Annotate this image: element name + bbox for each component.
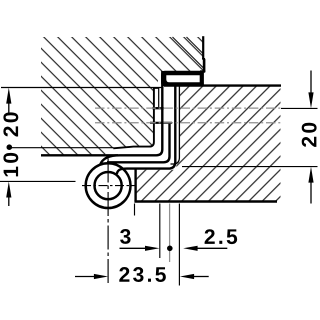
hinge leaf P1 (outer plate: down from flap, bend left to knuckle) xyxy=(100,71,162,165)
left dim: top reference line xyxy=(1,87,162,89)
door top edge fused with flap bottom xyxy=(164,84,281,86)
hinge leaf P3 (inner plate, door side) xyxy=(117,86,176,174)
right dim 20: up arrow xyxy=(310,182,312,204)
dim 23.5: right arrow xyxy=(180,274,194,279)
dim 2.5: label xyxy=(205,229,238,244)
frame rebate lip bottom cap xyxy=(200,70,205,72)
left dim: top up arrow xyxy=(6,88,11,104)
frame face line with mortise corner and step xyxy=(113,88,154,148)
screw axis line 2 (gray dash-dot) xyxy=(95,122,281,124)
bottom dims: extension line v1 xyxy=(159,204,161,259)
door bottom edge xyxy=(134,200,277,203)
dim 23.5: label xyxy=(119,267,166,282)
door left edge below hinge xyxy=(134,169,136,201)
dim 2.5: arrow xyxy=(183,246,197,251)
left dim: bottom reference line xyxy=(0,180,76,182)
right dim 20: top reference line xyxy=(281,107,318,109)
dim 3: label xyxy=(120,229,130,244)
P2 top cap xyxy=(150,122,172,124)
extra hatch lines near lip edge xyxy=(173,37,204,68)
left dim: label 10 xyxy=(3,153,18,177)
right dim 20: label xyxy=(302,123,317,147)
left dim: bottom up arrow xyxy=(6,182,11,198)
knuckle inner circle (pin) xyxy=(95,172,122,199)
left dim: bullet point marker xyxy=(7,144,13,150)
left dim: label 20 xyxy=(3,112,18,136)
left dim: middle reference line xyxy=(11,147,114,149)
door section hatch (right block, slash hatching) xyxy=(136,86,281,201)
hinge flap interior (white) xyxy=(166,75,199,82)
knuckle outer circle xyxy=(86,163,131,208)
hinge leaf P2 (middle plate) xyxy=(107,123,170,163)
right dim 20: down arrow xyxy=(310,71,312,94)
bottom dims: gray extension line with dot xyxy=(169,204,171,263)
frame rebate lip right edge xyxy=(202,36,204,59)
bottom dims: extension line v3 xyxy=(178,204,180,286)
hinge flap (top horizontal leaf, black outline) xyxy=(161,71,204,87)
frame leaf tab vertical xyxy=(154,88,159,107)
door mortise face xyxy=(171,86,180,164)
frame rebate lip step xyxy=(202,58,205,60)
screw axis line 1 (gray dash-dot) xyxy=(95,107,281,109)
right dim 20: bottom reference line xyxy=(182,166,318,168)
bottom dims: door edge stub xyxy=(134,204,136,216)
dim 23.5: left arrow xyxy=(75,276,95,278)
dim 2.5: reference dot xyxy=(167,246,173,252)
frame section hatch (upper-left block, backslash hatching) xyxy=(41,37,205,155)
dim 3: arrow xyxy=(120,247,147,249)
frame bottom edge xyxy=(41,154,118,156)
knuckle horizontal center line xyxy=(82,185,136,187)
knuckle vertical center line xyxy=(107,159,109,285)
frame leaf tab cap xyxy=(152,107,163,109)
